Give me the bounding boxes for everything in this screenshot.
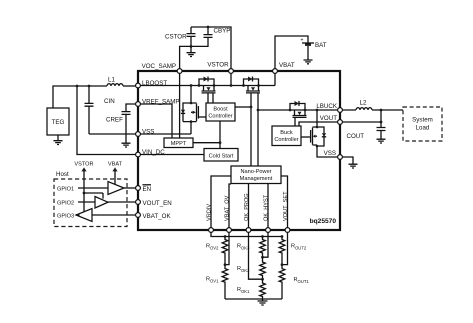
node junction CIN top — [88, 85, 91, 88]
wire VRDIV rail — [211, 230, 282, 237]
ground under COUT — [377, 139, 386, 143]
buffer U1 GPIO1-EN — [108, 182, 124, 195]
ground resistor network — [258, 299, 268, 305]
ground under TEG — [54, 135, 63, 145]
resistor ROUT2 — [279, 237, 307, 265]
svg-text:ROV1: ROV1 — [206, 277, 219, 284]
TEG source — [47, 108, 69, 135]
svg-text:OK_PROG: OK_PROG — [244, 193, 250, 221]
svg-text:MPPT: MPPT — [171, 141, 187, 147]
pin VBAT — [273, 69, 278, 74]
svg-text:System: System — [412, 117, 433, 124]
svg-text:Nano-Power: Nano-Power — [240, 169, 271, 175]
node junction TEG/VIN_DC — [76, 85, 79, 88]
battery BAT — [301, 38, 327, 50]
ground VSS right — [349, 164, 358, 168]
pin LBUCK — [338, 108, 343, 113]
wire VBAT riser to battery — [275, 36, 308, 71]
wire VOC_SAMP to MPPT — [179, 71, 181, 138]
wire VOUT pin to output node — [340, 110, 381, 122]
wire OK_HYST pin to NPM — [267, 184, 269, 231]
buffer U2 GPIO2-VOUT_EN — [95, 197, 108, 209]
svg-text:VOC_SAMP: VOC_SAMP — [142, 63, 176, 70]
capacitor CIN — [85, 86, 115, 134]
node junction caps bottom — [190, 45, 193, 48]
node junction VSTOR rail — [230, 84, 233, 87]
block Buck Controller — [272, 126, 301, 146]
wire ground rail — [225, 298, 282, 300]
wire VREF_SAMP to MPPT — [138, 104, 172, 138]
svg-text:GPIO2: GPIO2 — [57, 201, 74, 207]
inductor L1 — [107, 77, 123, 87]
wire buck rail LBUCK — [258, 109, 340, 111]
svg-text:Boost: Boost — [213, 107, 228, 113]
svg-text:L2: L2 — [360, 100, 367, 107]
svg-text:ROK1: ROK1 — [237, 287, 250, 294]
wire VSTOR supply to buffers — [84, 193, 103, 212]
block MPPT — [164, 138, 193, 148]
wire VBAT pin stub — [274, 71, 276, 86]
pin VOUT — [338, 120, 343, 125]
transistor Q4 buck PMOS — [289, 101, 307, 117]
svg-text:Management: Management — [240, 176, 273, 182]
wire VREF_SAMP to CREF — [126, 104, 138, 111]
pin VOUT_EN — [136, 200, 141, 205]
svg-text:+: + — [301, 38, 304, 44]
wire L1 to LBOOST pin — [123, 85, 138, 87]
svg-text:CBYP: CBYP — [214, 28, 231, 35]
svg-text:Buck: Buck — [280, 130, 293, 136]
svg-text:L1: L1 — [108, 77, 115, 84]
capacitor CSTOR — [165, 27, 196, 46]
wire VBAT_OV pin to NPM — [229, 184, 231, 230]
resistor ROK2 — [237, 257, 265, 279]
wire VOUT_SET pin to NPM — [281, 176, 288, 230]
svg-text:CIN: CIN — [104, 98, 115, 105]
transistor Q5 buck NMOS — [311, 109, 327, 148]
svg-text:Host: Host — [56, 171, 69, 178]
wire boost rail LBOOST/VSTOR/VBAT inside — [138, 85, 275, 87]
wire VOUT pin to Buck Controller — [299, 122, 340, 126]
svg-text:EN: EN — [143, 186, 152, 193]
pin EN — [136, 186, 141, 191]
wire VSS pin to Q3 — [138, 133, 191, 135]
svg-text:VOUT_EN: VOUT_EN — [143, 200, 172, 207]
svg-text:VBAT_OV: VBAT_OV — [224, 195, 230, 221]
svg-text:VOUT: VOUT — [320, 115, 337, 122]
svg-text:bq25570: bq25570 — [310, 218, 337, 225]
svg-text:VBAT_OK: VBAT_OK — [143, 213, 172, 220]
wire VSS right pin to ground — [340, 157, 353, 164]
svg-text:CREF: CREF — [106, 117, 123, 124]
node junction CBYP top — [207, 26, 210, 29]
wire CIN bottom to VSS pin — [89, 133, 138, 135]
node junction L2 out — [380, 109, 383, 112]
svg-text:Controller: Controller — [208, 114, 232, 120]
wire Q5 gate to Buck Controller — [301, 136, 311, 138]
wire OK_HYST tap — [263, 230, 269, 257]
svg-text:OK_HYST: OK_HYST — [263, 194, 269, 221]
wire GPIO1 to buffer — [78, 187, 108, 189]
Host dashed box — [54, 171, 127, 227]
ground under battery — [304, 46, 313, 64]
resistor ROUT1 — [279, 265, 309, 299]
pin OK_HYST — [266, 228, 271, 233]
pin VOC_SAMP — [177, 69, 182, 74]
pin VIN_DC — [136, 152, 141, 157]
svg-text:VSTOR: VSTOR — [207, 62, 229, 69]
svg-text:ROV2: ROV2 — [206, 244, 219, 251]
pin VSS left — [136, 132, 141, 137]
svg-text:BAT: BAT — [315, 42, 327, 49]
wire Q4 gate to Buck Controller — [294, 117, 296, 126]
wire VSTOR riser to caps — [191, 27, 231, 71]
transistor Q1 boost PMOS — [198, 77, 216, 93]
block Nano-Power Management — [231, 166, 281, 184]
resistor ROK1 — [237, 279, 265, 299]
svg-text:TEG: TEG — [52, 119, 65, 126]
wire VIN_DC pin to Cold Start — [138, 154, 204, 156]
node junction ROUT2 top — [281, 235, 284, 238]
pin LBOOST — [136, 83, 141, 88]
transistor Q2 VSTOR-VBAT PMOS — [242, 77, 260, 93]
pin VRDIV — [209, 228, 214, 233]
wire VRDIV pin to NPM — [211, 176, 231, 230]
svg-text:VBAT: VBAT — [279, 62, 295, 69]
svg-text:COUT: COUT — [347, 133, 365, 140]
buffer U3 VBAT_OK-GPIO3 — [76, 209, 92, 222]
resistor ROV1 — [206, 265, 228, 299]
svg-text:VSTOR: VSTOR — [74, 162, 93, 168]
wire OK_PROG pin to NPM — [248, 184, 250, 231]
svg-text:VIN_DC: VIN_DC — [142, 149, 165, 156]
pin OK_PROG — [246, 228, 251, 233]
svg-text:GPIO3: GPIO3 — [57, 214, 74, 220]
pin VBAT_OK — [136, 213, 141, 218]
wire Q5 source to VSS pin — [317, 146, 340, 157]
node junction ROV2 top — [224, 235, 227, 238]
node junction ROK3 top — [261, 235, 264, 238]
wire VOUT_SET tap — [282, 230, 288, 265]
wire VBAT_OK pin to buffer — [92, 214, 138, 216]
wire Q3 gate to Boost Controller — [198, 116, 206, 118]
svg-text:Load: Load — [416, 125, 430, 132]
svg-text:Cold Start: Cold Start — [209, 153, 234, 159]
pin VREF_SAMP — [136, 102, 141, 107]
block Cold Start — [204, 149, 238, 162]
svg-text:LBOOST: LBOOST — [142, 80, 167, 87]
inductor L2 — [340, 100, 403, 111]
resistor ROK3 — [237, 237, 265, 258]
svg-text:CSTOR: CSTOR — [165, 34, 187, 41]
transistor Q3 boost NMOS — [181, 102, 199, 123]
block Boost Controller U-boost — [206, 103, 235, 121]
svg-text:VRDIV: VRDIV — [206, 204, 212, 221]
svg-text:VOUT_SET: VOUT_SET — [283, 191, 289, 221]
wire OK_PROG tap — [249, 230, 263, 279]
wire buffer to GPIO3 — [76, 214, 80, 216]
svg-text:Controller: Controller — [274, 137, 298, 143]
pin VOUT_SET — [285, 228, 290, 233]
svg-text:VBAT: VBAT — [108, 162, 123, 168]
wire Boost Controller to Q2 gate — [235, 106, 251, 108]
capacitor COUT — [347, 122, 386, 140]
svg-text:ROUT1: ROUT1 — [294, 277, 310, 284]
wire VOC_SAMP riser — [180, 46, 191, 71]
pin VSTOR — [229, 69, 234, 74]
wire VIN_DC branch — [77, 86, 138, 155]
wire VBAT_OV tap — [225, 230, 229, 265]
supply arrow VBAT (host) — [108, 162, 123, 185]
svg-text:ROUT2: ROUT2 — [291, 244, 307, 251]
ground under CREF — [122, 143, 131, 147]
wire Q3 drain tap — [190, 86, 192, 104]
load System Load (dashed) — [403, 107, 442, 141]
svg-text:LBUCK: LBUCK — [316, 103, 338, 110]
capacitor CREF — [106, 112, 131, 143]
pin VBAT_OV — [227, 228, 232, 233]
wire Q1 gate leads to Boost Controller — [208, 93, 213, 103]
wire MPPT to Boost Controller and Cold Start — [193, 121, 220, 149]
resistor ROV2 — [206, 237, 228, 265]
svg-text:VSS: VSS — [142, 128, 154, 135]
svg-text:VREF_SAMP: VREF_SAMP — [142, 98, 179, 105]
pin VSS right — [338, 155, 343, 160]
node junction VSTOR supply — [83, 192, 86, 195]
supply arrow VSTOR (host) — [74, 162, 93, 194]
svg-text:GPIO1: GPIO1 — [57, 187, 74, 193]
wire Q2 leads down to Nano-Power Management — [251, 93, 258, 166]
ground caps — [187, 46, 196, 56]
capacitor CBYP — [191, 27, 230, 46]
wire Q3 source to VSS — [190, 122, 192, 134]
wire GPIO2 to buffer — [78, 201, 95, 203]
wire buffer to VOUT_EN pin — [108, 201, 138, 203]
wire VSTOR pin stub — [230, 71, 232, 86]
wire TEG top to L1 node — [53, 86, 107, 108]
IC bq25570 outline — [138, 71, 340, 230]
wire buffer to EN pin — [124, 187, 138, 189]
svg-text:VSS: VSS — [324, 150, 336, 157]
